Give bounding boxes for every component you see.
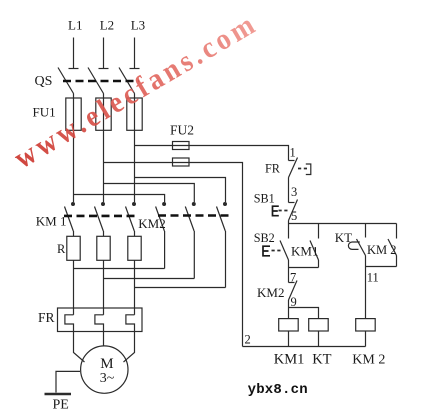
motor M circle [81,346,128,393]
wire FU1 through phase 2 [103,98,105,202]
svg-text:KM2: KM2 [257,285,284,300]
KM2 linkage dashed line [158,214,231,217]
wire branch node 2 from phase 2 [104,163,243,347]
wire node 7 [288,268,290,283]
thermal overload FR box [58,308,143,332]
svg-text:3~: 3~ [100,371,115,386]
wire node 9 branch to KT coil [289,308,319,319]
KM1 linkage dashed line [64,215,139,218]
KT delay symbol [348,242,359,249]
svg-text:KM 1: KM 1 [36,214,67,229]
fuse FU1 phase 2 [96,98,111,130]
coil KM2 [356,319,376,331]
wire QS to FU1 phase 3 [134,94,136,99]
svg-text:5: 5 [291,209,297,223]
wire KM2 aux top [396,224,398,239]
site label ybx8.cn [248,382,308,398]
contact KM1 pole 1 [65,203,75,231]
QS fixed contact tick phase 3 [130,68,140,70]
wire KM1 aux bottom [318,260,320,268]
svg-text:L3: L3 [131,18,145,33]
resistor R1 [67,236,80,260]
svg-text:3: 3 [291,185,297,199]
SB1 contact tick [289,202,295,204]
wire KM2 pole2 down [193,231,195,279]
svg-text:FR: FR [265,161,281,175]
wire KM2 coil to rail [365,331,367,347]
svg-text:FU2: FU2 [170,122,194,137]
wire QS to FU1 phase 1 [73,94,75,99]
resistor R3 [128,236,141,260]
QS blade phase 1 [58,68,74,94]
wire KM2 bypass junction phase 1 [74,268,165,270]
svg-text:KM2: KM2 [138,216,165,231]
watermark www.elecfans.com [8,7,263,177]
wire KT coil to rail [318,331,320,347]
FR heater element phase 3 [126,315,135,332]
wire node 5 horizontal [289,223,397,225]
wire KM2 feed from phase 3 [135,178,226,203]
KM2 NC contact tick [289,282,295,284]
wire QS to FU1 phase 2 [103,94,105,99]
wire FR to motor left [74,332,85,363]
fuse FU1 phase 1 [66,98,81,130]
FR NC contact blade [289,158,298,178]
QS blade phase 2 [88,68,104,94]
coil KM1 [279,319,299,331]
svg-text:9: 9 [291,295,297,309]
wire parallel rejoin KT/KM2 [366,266,397,268]
svg-text:KM 2: KM 2 [352,353,385,368]
wire FR to motor right [124,332,135,363]
wire KM2 bypass junction phase 2 [104,278,195,280]
wire KT contact top [365,224,367,238]
svg-text:KT: KT [312,352,331,368]
wire FU1 through phase 3 [134,98,136,202]
FR heater element phase 1 [65,315,74,332]
wire L1 [73,38,75,69]
contact KM2 pole 3 [217,203,227,231]
svg-text:QS: QS [35,74,53,89]
svg-text:1: 1 [290,146,296,160]
wire R3 to FR [134,260,136,315]
svg-text:KM1: KM1 [291,244,318,259]
coil KT [309,319,329,331]
wire R1 to FR [73,260,75,315]
SB2 NO blade [280,241,289,261]
wire KM1 pole1 to R1 [73,231,75,236]
wire FR to motor mid [103,332,105,347]
QS linkage dashed line [63,80,139,83]
svg-text:FR: FR [38,310,55,325]
svg-text:M: M [100,356,113,372]
wire KM2 feed from phase 2 [104,184,195,203]
wire KM1 pole3 to R3 [134,231,136,236]
svg-text:2: 2 [245,333,251,347]
svg-text:KM 2: KM 2 [367,243,397,257]
wire KM2 aux bottom [396,256,398,267]
wire KM2 feed from phase 1 [74,195,165,203]
KM1 aux NO blade [310,241,319,261]
wire FU1 through phase 1 [73,98,75,202]
contact KM2 pole 1 [156,203,166,231]
KM2 NC contact blade [289,281,298,301]
wire KM1 coil to rail [288,331,290,347]
wire KM2 bypass junction phase 3 [135,287,226,289]
QS fixed contact tick phase 1 [69,68,79,70]
FR thermal actuator dashes [298,168,307,170]
wire parallel rejoin SB2/KM1 [289,267,319,269]
contact KM2 pole 2 [185,203,195,231]
wire KM1 aux top [318,224,320,239]
contact KM1 pole 2 [95,203,105,231]
svg-text:SB1: SB1 [254,191,275,205]
FR contact tick [289,160,295,162]
svg-text:L1: L1 [68,18,82,33]
svg-text:KM1: KM1 [274,352,305,368]
wire L2 [103,38,105,69]
wire KM1 pole2 to R2 [103,231,105,236]
svg-text:7: 7 [290,271,296,285]
ground PE bar [45,393,72,396]
contact KM1 pole 3 [126,203,136,231]
fuse FU2 upper [173,142,190,150]
KT NO delayed blade [357,239,366,256]
wire SB2 bottom [288,260,290,268]
FR thermal actuator hook [306,164,311,175]
KM2 aux NO blade [388,239,397,256]
wire branch node 1 from phase 3 [135,146,289,161]
wire node 5 vertical [288,221,290,224]
wire KM2 pole1 down [164,231,166,269]
SB2 actuator dashes [272,250,281,252]
SB1 actuator E symbol [273,206,279,216]
SB1 NC blade [289,200,298,221]
QS blade phase 3 [119,68,135,94]
fuse FU2 lower [173,158,190,166]
svg-text:PE: PE [53,398,69,413]
fuse FU1 phase 3 [127,98,142,130]
wire KM2 pole3 down [225,231,227,288]
svg-text:L2: L2 [100,18,114,33]
svg-text:KT: KT [335,230,352,245]
wire KT contact bottom [365,256,367,267]
svg-text:FU1: FU1 [33,104,56,119]
wire motor to PE [56,371,80,392]
wire L3 [134,38,136,69]
SB2 actuator E symbol [263,246,270,256]
SB1 actuator dashes [279,210,288,212]
wire bottom rail 2 [243,346,366,348]
wire node 11 [365,267,367,319]
svg-text:R: R [57,242,66,256]
svg-text:SB2: SB2 [254,231,275,245]
QS fixed contact tick phase 2 [99,68,109,70]
wire R2 to FR [103,260,105,315]
svg-text:11: 11 [367,271,379,285]
wire node 9 [288,300,290,319]
resistor R2 [97,236,110,260]
wire node 3 [288,178,290,203]
wire SB2 top [288,224,290,239]
FR heater element phase 2 [95,315,104,332]
